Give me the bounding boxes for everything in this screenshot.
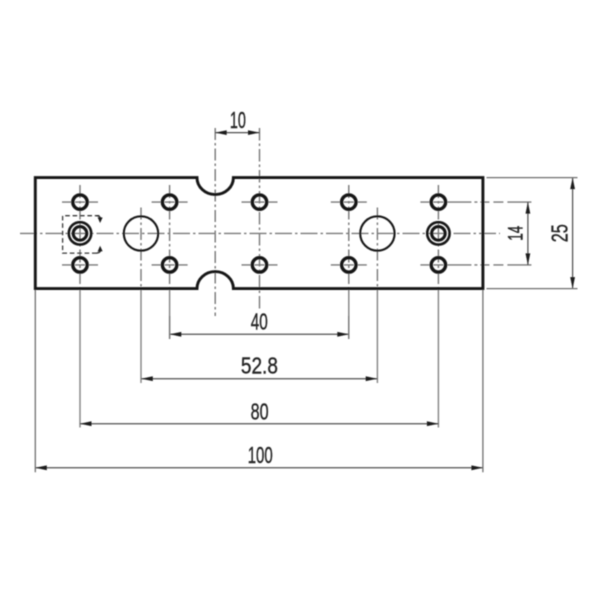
centerline column x=169.6 [169, 185, 171, 289]
svg-text:25: 25 [547, 224, 573, 242]
dimension 40: left arrow [170, 332, 182, 337]
dashed square marker around left counterbore [63, 216, 100, 253]
dimension 52.8: right arrow [366, 376, 378, 381]
plate outline with semicircular notches [35, 178, 483, 289]
svg-text:10: 10 [230, 107, 246, 133]
hole D2 small (348.8,264.9) [342, 258, 356, 272]
dimension 80: dim line [80, 423, 438, 425]
centerline column x=348.8 [348, 185, 350, 289]
centerline horizontal main axis [20, 232, 500, 234]
hole A2 small (80,264.9) [73, 258, 87, 272]
hole A1 small (80,202.1) [73, 195, 87, 209]
counterbore right outer circle [427, 222, 449, 244]
dimension 100: left arrow [35, 465, 47, 470]
dimension 10: left arrow [215, 130, 227, 135]
hole E1 small (438.4,202.1) [431, 195, 445, 209]
dimension 25: extension line bottom [487, 288, 578, 290]
centerline tick hole A2 [62, 264, 98, 266]
dimension 40: right arrow [337, 332, 349, 337]
dimension 80: right arrow [427, 421, 439, 426]
dimension 10: dim line [215, 132, 259, 134]
dimension 10: right arrow [248, 130, 260, 135]
dimension 25: top arrow [570, 178, 575, 190]
centerline tick hole B1 [152, 201, 188, 203]
centerline tick hole E2 extended as 14-dim extension [420, 264, 532, 266]
centerline large circle x=141 [140, 208, 142, 290]
counterbore left outer circle [69, 222, 91, 244]
counterbore left inner circle [73, 227, 87, 241]
dashed square bottom-right arrow [97, 250, 101, 253]
hole B1 small (169.6,202.1) [162, 195, 176, 209]
centerline tick hole C1 [242, 201, 278, 203]
svg-text:14: 14 [504, 226, 528, 241]
counterbore right inner circle [432, 227, 446, 241]
dimension 80: left arrow [80, 421, 92, 426]
dimension 14: bottom arrow [526, 253, 531, 265]
dimension 25: extension line top [487, 177, 578, 179]
dimension 100: extension line left [34, 290, 36, 472]
centerline column x=259.5 [259, 128, 261, 311]
centerline tick hole B2 [152, 264, 188, 266]
large hole right (377.4,233.5) [360, 216, 394, 250]
svg-text:52.8: 52.8 [241, 352, 278, 378]
centerline notch x=215.2 [214, 128, 216, 316]
hole C2 small (259.5,264.9) [252, 258, 266, 272]
svg-text:100: 100 [248, 442, 273, 468]
dimension 100: right arrow [471, 465, 483, 470]
centerline column x=438.4 [437, 185, 439, 289]
hole C1 small (259.5,202.1) [252, 195, 266, 209]
centerline tick hole D2 [331, 264, 367, 266]
svg-text:40: 40 [251, 308, 268, 334]
dashed square top-right arrow [97, 216, 101, 219]
hole D1 small (348.8,202.1) [342, 195, 356, 209]
centerline tick hole E1 extended as 14-dim extension [420, 201, 532, 203]
dimension 25: bottom arrow [570, 277, 575, 289]
centerline tick hole A1 [62, 201, 98, 203]
dimension 14: dim line [527, 202, 529, 265]
centerline column x=80 [79, 185, 81, 289]
dimension 40: extension line left [169, 316, 171, 339]
large hole left (141,233.5) [124, 216, 158, 250]
centerline tick hole C2 [242, 264, 278, 266]
centerline large circle x=377.4 [376, 208, 378, 290]
dimension 25: dim line [572, 178, 574, 289]
hole B2 small (169.6,264.9) [162, 258, 176, 272]
centerline tick hole D1 [331, 201, 367, 203]
dimension 100: dim line [35, 467, 483, 469]
dimension 40: extension line right [348, 316, 350, 339]
dimension 100: extension line right [482, 290, 484, 472]
dimension 40: dim line [170, 333, 349, 335]
hole E2 small (438.4,264.9) [431, 258, 445, 272]
svg-text:80: 80 [251, 398, 269, 424]
dimension 52.8: dim line [141, 378, 377, 380]
dimension 14: top arrow [526, 202, 531, 214]
dimension 52.8: left arrow [141, 376, 153, 381]
